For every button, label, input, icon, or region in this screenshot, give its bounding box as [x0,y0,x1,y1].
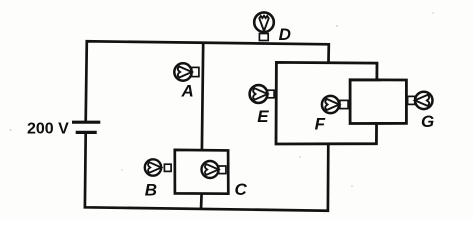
scan speckles [10,12,434,187]
svg-text:A: A [181,82,194,101]
battery plate short (bottom) [76,131,97,134]
svg-text:G: G [421,112,434,131]
bulb B [145,159,171,175]
svg-text:E: E [257,107,269,126]
inner box (F-G) [350,80,406,124]
svg-text:D: D [279,25,291,44]
wire: middle vertical upper (node with bulb A) [202,42,203,149]
wire: middle vertical lower (box B/C to bottom wire) [200,194,203,210]
box around bulbs B and C [175,150,229,194]
bulb E [250,85,274,103]
outer box (E branch) [276,62,377,144]
svg-text:C: C [235,180,248,199]
bulb F [322,96,348,113]
battery plate long (top) [72,121,100,124]
svg-text:F: F [315,115,326,134]
wire: left bottom + bottom wire + right rise to outer box [85,133,328,211]
wire: left side + top wire + right drop to outer box [86,41,329,121]
bulb C [202,161,226,178]
svg-text:B: B [145,181,157,200]
bulb A [174,63,199,80]
svg-text:200 V: 200 V [27,121,69,138]
bulb D [254,12,274,40]
bulb G [408,92,433,109]
